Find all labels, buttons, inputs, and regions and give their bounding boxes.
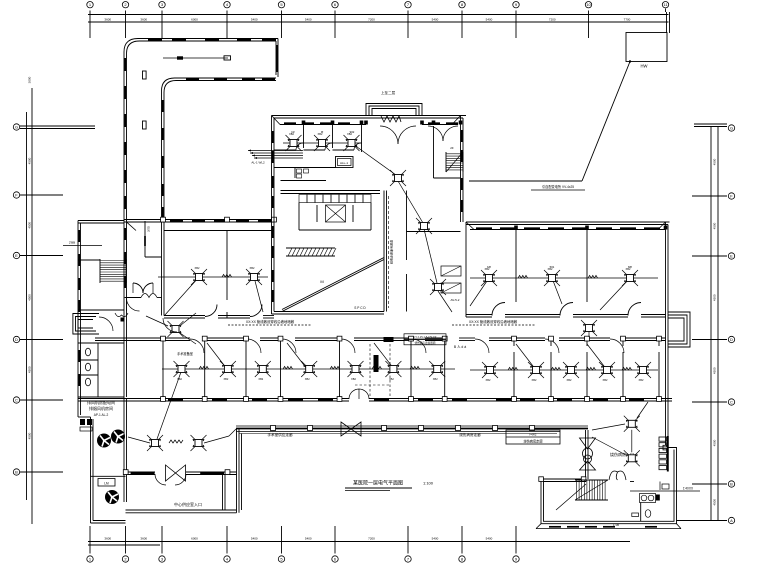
svg-text:5400: 5400 [305,17,312,21]
svg-text:5400: 5400 [486,537,493,541]
fan F3 [105,490,119,504]
svg-text:XB2: XB2 [305,377,310,381]
svg-text:1'1B: 1'1B [613,523,619,527]
svg-text:XB2: XB2 [389,377,394,381]
svg-text:4500: 4500 [27,432,31,439]
svg-text:6000: 6000 [191,17,198,21]
canopy columns [271,426,535,431]
stalls bottom wall [299,229,371,231]
svg-text:XX:XX 管线敷设穿线沿墙地暗敷: XX:XX 管线敷设穿线沿墙地暗敷 [246,319,295,324]
svg-text:XB2: XB2 [177,377,182,381]
entrance porch west [73,314,99,335]
svg-text:某医院一层电气平面图: 某医院一层电气平面图 [353,480,403,487]
lamp L24 [635,362,651,378]
lamp L20 [482,362,498,378]
svg-text:G: G [730,126,733,131]
bottom wavy door [349,389,369,399]
small WC central [295,168,309,179]
west block step to fan room [78,417,93,523]
lamp L16 [301,361,317,377]
central block top windows [284,122,458,124]
fan F2 [111,430,125,444]
right section right wall [666,222,669,448]
central block corner bevels [272,116,461,125]
lobby pad [121,318,125,322]
left rooms corner bevel [127,222,137,231]
bottom axis line [88,542,630,546]
svg-text:B: B [730,482,733,487]
svg-text:B 人 d á: B 人 d á [454,344,466,349]
lamp L23 [599,362,615,378]
strip door arc [127,298,140,311]
svg-text:B: B [15,470,18,475]
svg-text:XB2: XB2 [250,266,255,270]
corridor door arc at strip [163,318,177,332]
lamp labels [177,132,644,382]
SE corner pads [539,445,668,481]
svg-text:4500: 4500 [27,157,31,164]
svg-text:4500: 4500 [713,294,717,301]
corridor cable labels [228,319,312,325]
stair S1 [100,259,126,283]
lamp L1 [191,269,207,285]
lamp L25 [147,435,163,451]
svg-text:XB2: XB2 [223,377,228,381]
fan room divider [91,475,126,477]
svg-text:XB2: XB2 [486,378,491,382]
svg-text:AV-5-2: AV-5-2 [451,298,460,302]
stair S1 door arcs [133,283,153,293]
svg-text:5400: 5400 [432,17,439,21]
lamp L12 [581,320,597,336]
right axis dimension texts [713,158,717,505]
left axis grid bubbles G-B [13,124,19,475]
duct shaft dark [374,337,394,372]
svg-text:XB2: XB2 [603,378,608,382]
west canopy bottom edge [126,510,237,513]
svg-text:7200: 7200 [368,17,375,21]
svg-text:烧伤病房走廊: 烧伤病房走廊 [523,439,543,444]
room wall right of spine [407,191,461,312]
lower partition column pads [161,336,662,401]
SE leader label [630,487,700,492]
corridor door arcs down [190,339,624,353]
fan room east wall [124,399,127,503]
big ramp diagonal [282,258,384,312]
top row partitions [304,125,362,153]
lamp L27 [624,416,640,432]
lamp L19 [429,361,445,377]
strip west wall extension [124,221,127,399]
svg-text:手术准备室: 手术准备室 [177,351,193,356]
top axis ticks [90,9,666,39]
svg-text:3000: 3000 [27,76,31,83]
svg-text:3600: 3600 [104,537,111,541]
svg-text:3600: 3600 [104,17,111,21]
branch wire walkway [128,372,236,443]
bed hatch rects [441,266,461,293]
svg-text:G: G [15,125,18,130]
east canopy leg [586,430,589,479]
lamp L3 [481,270,497,286]
svg-text:M: M [320,279,323,284]
drawing title [345,480,434,491]
svg-text:XB2: XB2 [258,377,263,381]
strip west wall windows [124,228,126,288]
svg-text:中心供应室入口: 中心供应室入口 [174,501,202,507]
right axis vertical lines [711,126,718,521]
canopy bowtie door [341,422,361,436]
svg-text:上至二层: 上至二层 [381,90,396,95]
wall y180 [281,180,327,182]
central block left windows [272,131,274,302]
svg-text:烧伤病房走廊照明: 烧伤病房走廊照明 [415,341,436,345]
west block top wall [78,221,124,224]
lower rooms bottom wall [78,399,672,402]
right section left wall [465,222,467,317]
panel ALL-1 [336,157,354,168]
left rooms top wall [124,220,274,231]
svg-text:b#f: b#f [487,265,491,269]
lower rooms partitions [163,341,659,402]
east canopy hourglass [580,438,596,470]
top row door arcs [296,143,361,150]
central block bottom wall [272,312,385,315]
branch wire row top [283,143,452,312]
svg-text:5400: 5400 [251,537,258,541]
west lobby wall y343 [78,342,124,344]
svg-text:D: D [730,337,733,342]
svg-text:1'40XX: 1'40XX [683,487,694,491]
west lobby wall y310 [78,309,124,311]
west canopy door arcs [155,474,186,485]
lamp L28 [624,450,640,466]
left axis tick lines [20,126,95,472]
lamp L7 [314,135,330,151]
right rooms door arcs [492,303,641,316]
west block left wall windows [78,230,80,386]
SE block plinth [536,524,681,529]
lamp L18 [385,361,401,377]
lamp L4 [544,270,560,286]
svg-text:5#1: 5#1 [550,265,555,269]
top row room bottom walls [274,149,354,151]
right section top wall [466,222,670,230]
west block wall y397 [78,396,124,398]
svg-text:2/SD: 2/SD [147,226,151,232]
svg-text:引自配变电所 VV-4x25: 引自配变电所 VV-4x25 [542,184,574,189]
svg-text:2F: 2F [450,146,454,150]
porch door arc [99,317,113,331]
left axis vertical lines [27,88,33,524]
bottom axis ticks [90,526,516,554]
svg-text:XB2: XB2 [567,378,572,382]
right section top windows [476,227,660,229]
fan room label box [98,479,115,487]
svg-text:4500: 4500 [713,499,717,506]
corridor inner wall windows [163,79,275,219]
corridor wall boxes [143,71,147,129]
branch wire row south [162,343,455,369]
branch wire row mid-left [158,277,268,316]
svg-text:4500: 4500 [27,222,31,229]
svg-text:S P C D: S P C D [354,306,366,310]
SE toilet room [630,482,669,522]
strip lamp wires [146,313,196,344]
svg-text:C: C [15,398,18,403]
locker band [299,195,371,203]
small panels [80,419,92,431]
right axis tick lines [676,124,727,521]
central block right wall [461,116,464,223]
lamp L11 [430,279,446,295]
lamp L2 [246,269,262,285]
porch wavy door [115,313,128,317]
svg-text:4500: 4500 [27,366,31,373]
svg-text:7200: 7200 [549,17,556,21]
svg-text:b#: b# [291,130,295,134]
canopy west leg [237,429,242,513]
svg-text:5400: 5400 [432,537,439,541]
svg-text:5400: 5400 [251,17,258,21]
lamp L26 [191,435,207,451]
svg-text:ALL-1: ALL-1 [340,161,348,165]
left rooms top pads [161,217,277,222]
left rooms door arcs [205,305,262,317]
svg-text:XB2: XB2 [433,377,438,381]
svg-text:HW: HW [641,64,648,69]
right section corner bevels [466,222,666,230]
svg-text:手术室供应走廊: 手术室供应走廊 [267,432,293,437]
corridor outer wall [124,39,278,222]
wall y190 [281,191,381,194]
svg-text:7200: 7200 [368,537,375,541]
svg-text:AL-1 WL2: AL-1 WL2 [251,161,265,165]
lower rooms bottom windows [168,399,644,401]
lamp L6 [286,135,302,151]
svg-text:3600: 3600 [140,17,147,21]
corridor inner wall [162,78,277,221]
corridor label boxes [404,334,446,345]
svg-text:5400: 5400 [486,17,493,21]
east porch [668,312,690,347]
svg-text:AP-1 AL-2: AP-1 AL-2 [94,413,109,417]
svg-text:2'BB: 2'BB [69,241,75,245]
svg-text:7700: 7700 [624,17,631,21]
svg-text:C: C [730,400,733,405]
left axis dimension texts [27,76,31,439]
west canopy top edge [126,472,237,475]
SE block outline [541,448,677,524]
upper right room walls [434,126,461,178]
bottom axis dimension texts [104,537,492,541]
svg-text:4500: 4500 [713,367,717,374]
svg-text:4500: 4500 [713,439,717,446]
svg-text:D: D [15,337,18,342]
left rooms bottom wall [164,316,274,319]
lamp L21 [528,362,544,378]
svg-text:5400: 5400 [305,537,312,541]
vestibule inner door arcs [380,126,458,144]
branch wire row south-right [470,331,658,370]
cable drop diagonal [582,60,631,181]
svg-text:XX:XX 管线敷设穿线沿墙地暗敷: XX:XX 管线敷设穿线沿墙地暗敷 [469,319,518,324]
central block left wall [272,116,275,315]
svg-text:烧伤病房走廊: 烧伤病房走廊 [459,432,481,437]
svg-text:XB2: XB2 [351,377,356,381]
cable horizontal run [469,181,585,190]
corridor end wall [276,39,278,78]
svg-text:CY:J-15-1.5-3.5LXX: CY:J-15-1.5-3.5LXX [413,335,436,339]
top axis dimension texts [104,17,630,21]
branch wire row mid-right [470,278,658,310]
SE block bottom windows [549,526,657,528]
room labels top row [291,130,354,134]
stair S2 [446,152,463,172]
svg-text:4500: 4500 [713,158,717,165]
west block room wall y260 [78,259,100,261]
svg-text:XB2: XB2 [639,378,644,382]
svg-text:XB2: XB2 [532,378,537,382]
svg-text:l=W2: l=W2 [530,433,537,437]
stair S3 [556,480,608,510]
right axis grid bubbles G-A [728,125,734,524]
svg-text:4500: 4500 [713,222,717,229]
west canopy bowtie [166,465,186,481]
ramp hatch [286,248,336,256]
strip wall y297 [125,294,162,298]
svg-text:XB2: XB2 [195,266,200,270]
corridor outer wall windows [125,40,276,209]
corridor spine walls [384,191,389,312]
wall y167 [274,167,336,169]
dashed fitting partitions [355,344,390,398]
top axis line [88,12,670,33]
lamp L10 [416,218,432,234]
fan F1 [97,434,111,448]
svg-text:10: 10 [586,2,591,7]
right section partitions [516,230,587,303]
left rooms top windows [170,220,271,222]
west label 2BB [63,241,102,246]
HW source box [626,33,667,62]
svg-text:6000: 6000 [191,537,198,541]
lamp L5 [622,270,638,286]
lamp L14 [220,361,236,377]
corridor bottom wall [95,338,666,341]
room labels mid-right [487,265,632,269]
west block left wall [78,221,81,418]
svg-text:1:100: 1:100 [423,481,434,486]
svg-text:4500: 4500 [27,294,31,301]
left rooms partition [226,231,228,319]
corridor misc labels [451,298,467,349]
svg-text:E: E [730,254,733,259]
svg-text:3600: 3600 [140,537,147,541]
vestibule revolving door [381,116,401,122]
lamp L15 [255,361,271,377]
right top wall pads [514,226,667,230]
west canopy edge pads [123,470,230,475]
west canopy inner wall [223,475,226,511]
strip east wall extension [162,221,165,316]
feeder bundle [248,150,303,165]
strip room wall x145 [145,221,162,257]
svg-text:疏散走廊兼用通道: 疏散走廊兼用通道 [389,240,394,264]
lamp strip corridor [168,321,184,337]
lamp L22 [563,362,579,378]
lamp L8 [344,135,360,151]
canopy texts [267,432,481,437]
central top wall pads [302,121,463,125]
svg-text:排风机房配电间: 排风机房配电间 [87,399,115,405]
svg-text:LM: LM [104,481,109,485]
svg-text:9#2: 9#2 [350,130,355,134]
lamp L9 [390,170,406,186]
svg-text:E: E [15,253,18,258]
fan room bottom wall [91,521,126,524]
corridor ceiling light run [163,56,231,60]
right rooms bottom wall [466,315,666,318]
wire zigzag marks [199,274,632,370]
branch wire SE [592,402,648,455]
WC room west [80,343,98,397]
central block right windows [461,130,463,212]
top axis grid bubbles 1-11 [87,1,669,7]
bottom axis grid bubbles 1-9 [87,556,519,562]
svg-text:8#f: 8#f [628,265,632,269]
central block top wall [272,116,467,125]
WC stalls central [299,203,371,231]
electrical room labels [87,399,115,417]
svg-text:A: A [730,518,733,523]
vestibule [366,104,422,116]
radiator louvers [659,436,668,472]
lamp L13 [174,361,190,377]
SE wavy door [609,471,626,480]
svg-text:排烟风机房间: 排烟风机房间 [89,405,113,411]
supply label box [506,430,560,444]
canopy main beam [236,426,588,434]
lamp L17 [348,361,364,377]
